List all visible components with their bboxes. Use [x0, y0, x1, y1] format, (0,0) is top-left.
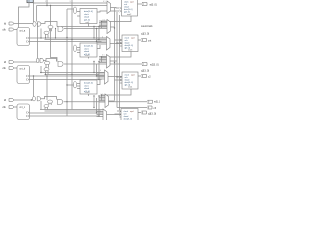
svg-text:sload: sload: [84, 88, 90, 90]
svg-text:upd: upd: [131, 38, 134, 40]
svg-text:0: 0: [102, 37, 103, 39]
svg-text:0 1: 0 1: [102, 55, 105, 57]
svg-text:data[3..0]: data[3..0]: [84, 10, 93, 13]
svg-text:q2[3..0]: q2[3..0]: [141, 70, 149, 73]
svg-text:0 1: 0 1: [103, 20, 106, 22]
svg-text:q1[3..0]: q1[3..0]: [141, 33, 149, 36]
svg-text:0 1: 0 1: [103, 1, 106, 3]
svg-text:cnt: cnt: [148, 40, 152, 43]
svg-text:sload: sload: [84, 51, 90, 53]
svg-text:0 1: 0 1: [101, 94, 104, 96]
svg-text:upd: upd: [130, 111, 133, 113]
svg-text:w2[3..0]: w2[3..0]: [150, 63, 159, 66]
svg-text:cnt_b: cnt_b: [20, 68, 26, 71]
svg-text:data[3..0]: data[3..0]: [84, 82, 93, 85]
svg-text:upd: upd: [130, 2, 133, 4]
svg-text:cnt_c: cnt_c: [20, 106, 26, 109]
svg-text:w3[..]: w3[..]: [154, 101, 160, 104]
svg-text:q3[3..0]: q3[3..0]: [148, 112, 156, 115]
svg-text:count:inst1: count:inst1: [141, 25, 153, 28]
svg-text:sload: sload: [84, 17, 90, 19]
svg-text:1: 1: [45, 1, 46, 3]
svg-text:w[3..0]: w[3..0]: [150, 4, 157, 7]
svg-text:0: 0: [100, 70, 101, 72]
svg-text:upd: upd: [131, 75, 134, 77]
svg-text:3: 3: [70, 1, 71, 3]
svg-text:data[3..0]: data[3..0]: [124, 118, 133, 121]
svg-text:data[3..0]: data[3..0]: [84, 45, 93, 48]
svg-text:cnt_a: cnt_a: [20, 30, 26, 33]
svg-text:0: 0: [99, 109, 100, 111]
